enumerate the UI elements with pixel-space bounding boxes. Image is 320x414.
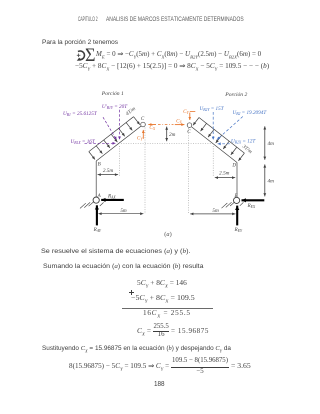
body text 3 [42,346,231,352]
svg-text:UB1 = 25.6125T: UB1 = 25.6125T [63,111,98,117]
svg-text:B: B [98,162,101,167]
left load band outer line [89,117,134,152]
svg-text:E: E [233,194,237,199]
svg-text:UB2X = 12T: UB2X = 12T [231,139,256,145]
figure caption (a) [164,232,171,238]
reaction REX [242,199,265,201]
4m dimension upper [264,126,266,160]
guide dotted horizontal mid-height [121,142,212,144]
force CY left (orange) [142,130,144,139]
resultant UB2Y (blue vertical) [212,112,214,140]
right column DE [236,163,238,198]
equation block: sum [137,281,187,288]
page header [78,17,114,23]
guide dotted vertical below left midpoint [119,146,121,177]
right load arrows [193,118,244,161]
intro paragraph [42,40,118,46]
svg-text:RAX: RAX [107,193,116,199]
equation 1 [76,49,86,65]
left rafter BC [96,126,141,161]
reaction RAY [96,205,98,225]
svg-text:UB1X = 16T: UB1X = 16T [71,139,96,145]
CX fraction equation [137,329,151,336]
hinge C right circle [187,123,192,128]
resultant UB1X (purple horizontal) [85,142,116,144]
4m dimension lower [264,164,266,196]
left load arrows [89,117,140,160]
svg-text:CX: CX [176,118,182,124]
svg-text:A: A [97,194,102,199]
body text 2 [43,264,203,270]
svg-text:5m: 5m [120,208,127,214]
svg-text:5m: 5m [212,208,219,214]
svg-text:2.5m: 2.5m [103,168,113,174]
svg-text:REX: REX [247,203,256,209]
right load band outer line [199,118,244,154]
svg-text:U′B1Y = 20T: U′B1Y = 20T [102,104,128,110]
svg-text:C: C [141,117,145,122]
left column AB [95,161,97,197]
2m dimension [166,127,168,142]
resultant UB2X (blue horizontal) [218,143,230,145]
2.5m dimension left [98,174,119,176]
hinge C left circle [141,122,146,127]
reaction REY [236,206,238,226]
force CX right (orange) [175,124,185,126]
svg-text:Porción 2: Porción 2 [224,92,247,98]
svg-text:Porción 1: Porción 1 [101,91,124,97]
svg-text:CX: CX [149,125,155,131]
guide dotted vertical below right midpoint [212,146,214,177]
svg-text:CY: CY [183,109,189,115]
resultant UB2 (blue diagonal) [217,117,243,140]
pin support E [234,197,240,203]
svg-text:2m: 2m [169,132,176,138]
resultant UB1 (purple) [103,117,117,140]
pin support A [93,197,99,203]
right rafter CD [192,127,237,163]
5m dimension right [190,213,235,215]
guide dotted vertical below C left [144,128,146,215]
equation 2 [75,64,269,71]
resultant U'B1Y (purple vertical) [119,110,121,140]
force CX left (orange) [148,124,156,126]
sum rule [122,307,213,310]
final equation [69,364,169,371]
svg-text:REY: REY [234,227,243,233]
page number [154,381,165,388]
svg-text:UB2Y = 15T: UB2Y = 15T [200,106,225,112]
2.5m dimension right [215,177,235,179]
guide dotted vertical below C right [188,128,190,214]
force CY right (orange) [190,110,196,112]
svg-text:C: C [187,130,191,135]
orange dash-dot link [158,124,174,126]
body text 1 [41,249,190,255]
svg-text:D: D [231,163,236,168]
svg-text:RAY: RAY [93,227,102,233]
svg-text:2.5m: 2.5m [219,170,229,176]
FIGURE [0,0,320,246]
reaction RAX [101,199,124,201]
5m dimension left [98,213,143,215]
svg-text:4m: 4m [268,177,275,184]
svg-text:3T/m: 3T/m [241,144,253,155]
svg-text:CY: CY [137,135,143,141]
svg-text:UB2 = 19.2094T: UB2 = 19.2094T [233,109,268,116]
svg-text:4m: 4m [268,140,275,147]
